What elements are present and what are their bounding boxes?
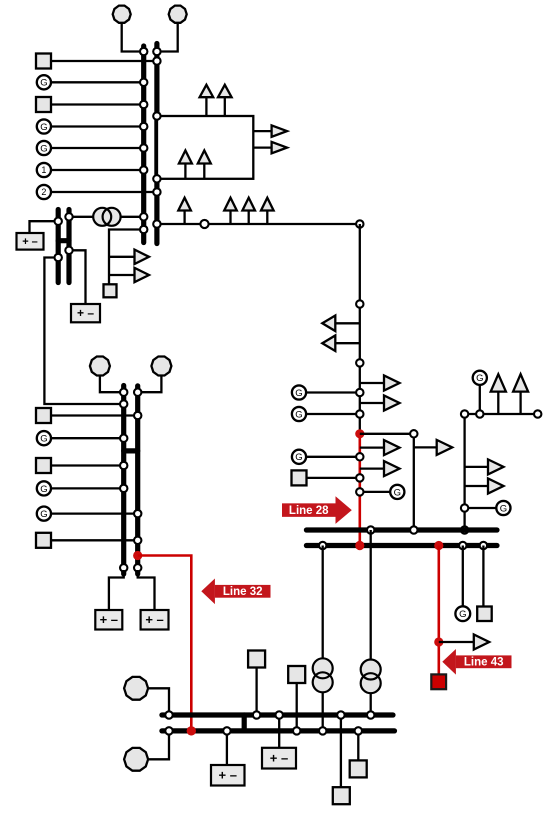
square load S6: [36, 458, 51, 473]
machine M2: [37, 185, 51, 199]
generator G12: [37, 481, 51, 495]
node Line 32 end (red): [187, 726, 196, 735]
load arrow right L22: [439, 635, 489, 650]
node branch corner: [410, 430, 417, 437]
wire G-C1 to bus C1: [100, 376, 124, 392]
load arrow right L15: [414, 440, 452, 455]
wire battery B6 to bus B2: [226, 731, 228, 765]
load arrow up L4: [198, 151, 211, 179]
wire machine M2 to bus: [51, 191, 157, 193]
node battery B5: [276, 711, 283, 718]
wire Line 43 (red): [437, 546, 440, 676]
node D1 link: [55, 254, 62, 261]
svg-text:G: G: [295, 452, 302, 463]
generator G10: [455, 606, 470, 621]
svg-text:+ –: + –: [22, 236, 38, 248]
square load S9: [248, 651, 265, 668]
node T3 on bus D2: [65, 213, 72, 220]
generator G11: [37, 431, 51, 445]
node branch on bus A1: [140, 226, 147, 233]
node right header east: [534, 410, 541, 417]
wire battery B1 to bus D1: [30, 221, 59, 233]
battery B6: [211, 765, 245, 786]
node Line 28 end (red): [355, 541, 364, 550]
node riser on bus 1: [461, 526, 468, 533]
machine M1: [37, 163, 51, 177]
svg-text:+ –: + –: [145, 612, 163, 627]
node T1 on bus B2: [319, 727, 326, 734]
svg-text:G: G: [476, 373, 483, 384]
svg-text:G: G: [500, 503, 507, 514]
wire bus L28-1 to transformer T2: [370, 530, 372, 660]
load arrow up L9: [242, 198, 255, 224]
node right header west: [461, 410, 468, 417]
wire generator G1 to bus: [51, 81, 144, 83]
svg-text:+ –: + –: [77, 306, 94, 320]
svg-text:G: G: [459, 609, 466, 620]
generator G-B1: [124, 677, 148, 700]
wire machine M1 to bus: [51, 169, 144, 171]
generator G4: [292, 385, 306, 399]
node box bottom on bus A2: [153, 175, 160, 182]
node G7: [356, 488, 363, 495]
bus D1: [56, 210, 61, 283]
node trunk T2: [356, 359, 363, 366]
load arrow up L1: [200, 85, 214, 116]
wire Line 32 (red): [138, 556, 192, 731]
wire battery B5 to bus B1: [278, 715, 280, 748]
svg-text:G: G: [40, 122, 47, 133]
wire bus L28-2 to G10: [462, 546, 464, 607]
label Line 28: [282, 496, 352, 524]
square load S5: [36, 408, 51, 423]
node G-C1 on bus C1: [120, 389, 127, 396]
node G5: [356, 410, 363, 417]
wire bus L28-2 to transformer T1: [322, 546, 324, 659]
node box top on bus A2: [153, 112, 160, 119]
wire S12 to bus B2: [357, 731, 359, 761]
svg-text:Line 43: Line 43: [464, 657, 504, 669]
svg-text:G: G: [40, 484, 47, 495]
node gen A2 on bus A2: [153, 48, 160, 55]
bus L28-1: [306, 527, 497, 532]
bus B1: [162, 712, 393, 717]
node bus C2 end: [134, 564, 141, 571]
load arrow up L19: [513, 374, 528, 414]
node square load S2: [140, 101, 147, 108]
wire S10 to bus B2: [296, 683, 298, 731]
wire G8 down: [479, 385, 481, 414]
node S9: [253, 711, 260, 718]
generator G3: [37, 141, 51, 155]
generator G2: [37, 119, 51, 133]
node square load S6: [120, 462, 127, 469]
node G10 on bus L28-2: [459, 542, 466, 549]
svg-text:G: G: [40, 143, 47, 154]
wire riser to G9: [465, 507, 497, 509]
node generator G13: [134, 510, 141, 517]
wire G6 to trunk: [306, 456, 360, 458]
bus A2: [154, 44, 159, 244]
node gen A1 on bus A1: [140, 48, 147, 55]
battery B3: [95, 610, 122, 630]
generator G-A1: [113, 6, 131, 23]
load arrow right L24: [109, 268, 149, 282]
svg-text:G: G: [295, 409, 302, 420]
node battery B6: [223, 727, 230, 734]
node battery B1: [55, 218, 62, 225]
node G9: [461, 504, 468, 511]
square load S2: [36, 97, 51, 112]
bus L28-2: [306, 543, 497, 548]
square load S11: [333, 787, 350, 804]
transformer T3: [93, 208, 120, 226]
wire square load S2 to bus: [51, 103, 144, 105]
svg-text:G: G: [295, 388, 302, 399]
node G-B2 on bus B2: [165, 727, 172, 734]
square load S10: [288, 666, 305, 683]
bus D2: [66, 210, 71, 283]
wire generator G3 to bus: [51, 147, 144, 149]
node G-C2 on bus C2: [134, 389, 141, 396]
node trunk T1: [356, 300, 363, 307]
svg-text:G: G: [394, 487, 401, 498]
battery B5: [262, 748, 296, 769]
svg-text:Line 32: Line 32: [223, 586, 263, 598]
battery B1: [17, 233, 44, 250]
load arrow right L5: [253, 125, 287, 136]
load arrow up L10: [261, 198, 274, 224]
node Line 43 start (red): [434, 541, 443, 550]
node S12 on bus B2: [355, 727, 362, 734]
wire branch from bus A1: [109, 230, 144, 285]
junction J1: [200, 220, 208, 228]
node transformer T1 on bus L28-2: [319, 542, 326, 549]
wire right riser: [463, 414, 465, 530]
node S4 on bus L28-2: [480, 542, 487, 549]
label Line 32: [201, 579, 270, 605]
node generator G11: [120, 435, 127, 442]
wire G5 to trunk: [306, 413, 360, 415]
node feeder on bus A2: [153, 220, 160, 227]
wire T3 to bus D2: [69, 216, 93, 218]
wire bus C1 to battery B3: [109, 570, 124, 610]
battery B2: [71, 304, 100, 322]
load arrow right L13: [360, 376, 400, 391]
wire S11 to bus B1: [340, 715, 342, 787]
wire S9 to bus B1: [255, 668, 257, 716]
wire bus C2 to battery B4: [138, 570, 155, 610]
wire generator G2 to bus: [51, 125, 144, 127]
square load S7: [36, 533, 51, 548]
generator G5: [292, 407, 306, 421]
load arrow right L21: [465, 479, 504, 494]
square load S4: [477, 607, 492, 622]
load arrow right L23: [109, 250, 149, 264]
node generator G2: [140, 123, 147, 130]
generator G6: [292, 450, 306, 464]
transformer T2: [361, 660, 381, 694]
node machine M1: [140, 166, 147, 173]
wire square load S5 to bus: [51, 414, 138, 416]
generator G-B2: [124, 748, 148, 771]
node square load S7: [134, 537, 141, 544]
svg-text:G: G: [40, 78, 47, 89]
node generator G1: [140, 79, 147, 86]
label Line 43: [442, 649, 511, 675]
bus coupler D: [58, 238, 69, 243]
wire generator G12 to bus: [51, 487, 124, 489]
wire G4 to trunk: [306, 391, 360, 393]
load arrow up L3: [179, 151, 192, 179]
svg-text:1: 1: [41, 165, 46, 175]
wire G-C2 to bus C2: [138, 376, 162, 392]
external grid X1 (red square): [431, 674, 446, 689]
box substation B1: [157, 116, 253, 179]
bus A1: [141, 46, 146, 243]
svg-text:G: G: [40, 509, 47, 520]
bus C1: [121, 386, 126, 575]
wire trunk upper: [359, 224, 361, 434]
generator G8: [473, 371, 487, 385]
battery B4: [141, 610, 169, 630]
generator G-C2: [151, 357, 171, 376]
wire battery B2 to bus D2: [69, 250, 86, 304]
wire feeder from bus A2: [157, 223, 360, 225]
node transformer T2 on bus L28-1: [367, 526, 374, 533]
node generator G3: [140, 144, 147, 151]
wire bus L28-2 to S4: [482, 546, 484, 607]
load arrow up L7: [178, 198, 191, 224]
wire G-B1 to bus B1: [147, 688, 169, 715]
node Line 28 end top layer (red): [355, 541, 364, 550]
node G-B1 on bus B1: [165, 711, 172, 718]
wire G-B2 to bus B2: [147, 731, 169, 759]
node Line 32 end top layer (red): [187, 726, 196, 735]
load arrow right L14: [360, 396, 400, 411]
wire right header: [465, 413, 538, 415]
node G6: [356, 453, 363, 460]
wire square load S7 to bus: [51, 539, 138, 541]
transformer T1: [313, 658, 333, 692]
square load S8: [104, 284, 117, 297]
node battery B2: [65, 247, 72, 254]
svg-text:+ –: + –: [219, 768, 237, 783]
load arrow right L20: [465, 459, 504, 474]
wire branch to bus 1: [360, 434, 414, 530]
square load S3: [292, 470, 307, 485]
node machine M2: [153, 188, 160, 195]
load arrow right L17: [360, 461, 400, 476]
generator G13: [37, 506, 51, 520]
load arrow up L18: [491, 374, 506, 414]
svg-text:G: G: [40, 434, 47, 445]
node square load S1: [153, 57, 160, 64]
wire T3 to bus A1: [121, 216, 144, 218]
wire square load S6 to bus: [51, 464, 124, 466]
wire generator G-A1 to bus A1: [122, 23, 144, 52]
bus coupler C: [124, 448, 138, 453]
bus coupler B: [242, 715, 247, 731]
generator G1: [37, 75, 51, 89]
generator G-C1: [90, 357, 110, 376]
generator G-A2: [169, 6, 187, 23]
load arrow right L6: [253, 142, 287, 153]
wire T1 to bus B2: [322, 692, 324, 731]
node Line 28 start (red): [355, 429, 364, 438]
node S11 on bus B1: [337, 711, 344, 718]
node T3 on bus A1: [140, 213, 147, 220]
node T2 on bus B1: [367, 711, 374, 718]
wire T2 to bus B1: [370, 693, 372, 715]
node G8 on header: [476, 410, 483, 417]
svg-text:Line 28: Line 28: [289, 505, 329, 517]
wire square load S1 to bus: [51, 60, 157, 62]
node generator G12: [120, 485, 127, 492]
wire generator G11 to bus: [51, 437, 124, 439]
node S10: [293, 727, 300, 734]
svg-text:+ –: + –: [100, 612, 118, 627]
generator G9: [496, 501, 510, 515]
wire link from bus D1: [44, 258, 123, 405]
load arrow up L8: [224, 198, 237, 224]
node Line 43 junction (red): [434, 637, 443, 646]
wire generator G13 to bus: [51, 512, 138, 514]
bus C2: [135, 386, 140, 574]
wire S3 to trunk: [307, 477, 360, 479]
node Line 32 start (red): [133, 551, 142, 560]
svg-text:2: 2: [41, 187, 46, 197]
load arrow right L16: [360, 440, 400, 455]
square load S12: [350, 760, 367, 777]
bus B2: [162, 728, 395, 733]
load arrow left L11: [322, 316, 360, 332]
node square load S5: [134, 412, 141, 419]
generator G7: [390, 485, 404, 499]
square load S1: [36, 54, 51, 69]
load arrow left L12: [322, 335, 360, 351]
node branch on bus L28-1: [410, 526, 417, 533]
node feeder corner: [356, 220, 363, 227]
node G4: [356, 389, 363, 396]
load arrow up L2: [218, 85, 232, 116]
svg-text:+ –: + –: [270, 751, 288, 766]
node bus C1 end: [120, 564, 127, 571]
node S3: [356, 474, 363, 481]
wire trunk Line 28 (red): [358, 434, 361, 546]
wire generator G-A2 to bus A2: [157, 23, 178, 52]
node link on bus C1: [120, 400, 127, 407]
wire trunk to G7: [360, 491, 391, 493]
